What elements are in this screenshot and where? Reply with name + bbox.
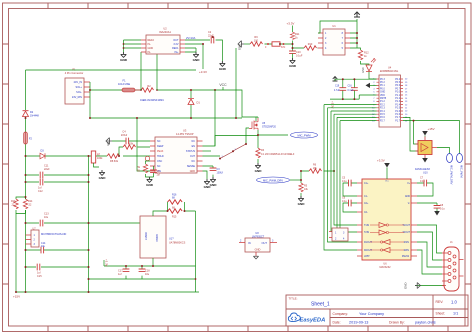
capacitor C7 xyxy=(417,177,433,197)
svg-text:P2.2: P2.2 xyxy=(380,104,385,106)
wire left bypass down xyxy=(15,214,17,293)
wire U6 R1IN to J1 xyxy=(417,242,442,267)
resistor R11 xyxy=(290,32,300,51)
wire 24V bus xyxy=(90,90,256,121)
net port MIC_PWM vertical xyxy=(457,154,464,178)
wire bus line4 xyxy=(334,114,377,225)
capacitor C3 xyxy=(210,168,224,174)
svg-text:D1: D1 xyxy=(197,101,201,105)
driver IC U3 xyxy=(150,129,203,174)
svg-text:NC: NC xyxy=(192,140,196,143)
wire rung 182 C12 xyxy=(26,181,89,183)
wire caps bottom rail to VDD xyxy=(330,95,377,99)
regulator U8 xyxy=(239,232,277,259)
svg-text:67Ω: 67Ω xyxy=(281,47,286,49)
svg-text:R1IN: R1IN xyxy=(404,242,410,244)
svg-text:GND: GND xyxy=(190,170,196,173)
svg-text:U1: U1 xyxy=(332,24,336,28)
wire U2 3.3V pin down xyxy=(185,44,203,69)
capacitor C16 xyxy=(348,79,358,99)
wire U3 status stub xyxy=(203,150,212,152)
svg-text:Date:: Date: xyxy=(333,321,341,325)
frame ticks right xyxy=(465,44,471,284)
frame ticks bottom xyxy=(48,326,448,332)
svg-text:IN: IN xyxy=(248,241,251,245)
svg-text:1uf: 1uf xyxy=(118,273,122,276)
wire EN down leg xyxy=(215,136,258,146)
svg-text:P2.5: P2.5 xyxy=(380,114,385,116)
wire U1 pin1 loop xyxy=(318,21,357,33)
header P2 xyxy=(329,228,348,241)
svg-text:C1+: C1+ xyxy=(364,183,369,185)
svg-text:C1-: C1- xyxy=(364,196,368,198)
svg-text:10u: 10u xyxy=(41,245,46,248)
capacitor C15 xyxy=(37,264,42,278)
svg-text:TITLE:: TITLE: xyxy=(289,297,298,301)
svg-text:EFM8BB21F16G: EFM8BB21F16G xyxy=(380,70,398,73)
svg-text:EasyEDA: EasyEDA xyxy=(300,318,326,324)
svg-text:+3.3V: +3.3V xyxy=(287,22,295,26)
svg-text:REF2: REF2 xyxy=(148,39,155,42)
svg-text:GND: GND xyxy=(404,283,408,289)
svg-text:VDD: VDD xyxy=(380,95,385,97)
svg-text:MIC_PWM_DRV: MIC_PWM_DRV xyxy=(450,165,454,185)
svg-text:P0.1: P0.1 xyxy=(380,85,385,87)
wire fan out xyxy=(437,148,450,154)
svg-text:MAX3232: MAX3232 xyxy=(380,266,392,269)
wire bus line2 xyxy=(328,108,377,242)
junction dots left xyxy=(15,89,216,293)
connector P1 xyxy=(65,68,90,105)
ground arrow left of U4 xyxy=(366,83,377,88)
svg-text:Sheet:: Sheet: xyxy=(436,312,446,316)
resistor R12 xyxy=(358,50,369,65)
resistor pair R16 R15 xyxy=(153,194,196,219)
svg-text:RSTB: RSTB xyxy=(380,98,387,100)
svg-text:MIC_PWM: MIC_PWM xyxy=(460,165,464,178)
svg-text:+15V: +15V xyxy=(428,127,435,131)
svg-text:+15V: +15V xyxy=(13,295,20,299)
svg-text:RS232: RS232 xyxy=(402,256,410,258)
svg-text:T1OUT: T1OUT xyxy=(402,225,410,227)
svg-text:C2+: C2+ xyxy=(364,203,369,205)
svg-text:P0.7: P0.7 xyxy=(395,88,400,90)
LED D4 xyxy=(362,59,376,74)
ground below C2 xyxy=(219,61,227,71)
net flag +3.3V at R11 xyxy=(287,22,295,33)
svg-text:REV:: REV: xyxy=(436,300,444,304)
capacitor C11 xyxy=(40,165,50,179)
svg-text:U3: U3 xyxy=(183,129,187,133)
svg-text:2V=10A: 2V=10A xyxy=(186,36,196,40)
resistor R1 xyxy=(137,161,154,177)
wire P1 joins xyxy=(89,82,91,118)
svg-text:10u: 10u xyxy=(44,216,49,219)
ground U3 gnd xyxy=(204,179,212,189)
svg-text:P2.4: P2.4 xyxy=(380,111,385,113)
wire U3 gnd pin xyxy=(203,171,208,179)
svg-text:OUT: OUT xyxy=(190,155,196,158)
ground below R3 xyxy=(255,163,263,173)
svg-text:100k: 100k xyxy=(97,157,103,160)
junction dots U2 left xyxy=(123,43,125,49)
ground U2 right xyxy=(193,52,201,62)
svg-text:C2-: C2- xyxy=(364,212,368,214)
svg-text:P1.7: P1.7 xyxy=(395,117,400,119)
svg-text:24V_IN: 24V_IN xyxy=(74,81,83,84)
svg-text:01ERJ-M1WSF10MU: 01ERJ-M1WSF10MU xyxy=(140,99,164,102)
connector J1 DB9 xyxy=(442,241,464,291)
wire U6 T2OUT to J1 xyxy=(417,232,442,260)
ground at J1 rotated xyxy=(404,283,421,290)
wire U2 ref1/in+ gnd xyxy=(185,48,196,52)
svg-text:Company:: Company: xyxy=(333,312,349,316)
svg-text:1N4448: 1N4448 xyxy=(30,115,39,118)
svg-text:0.1u: 0.1u xyxy=(420,180,425,183)
svg-text:215uf: 215uf xyxy=(121,134,128,137)
svg-text:U10: U10 xyxy=(423,172,428,175)
svg-text:0.1uF: 0.1uF xyxy=(296,54,303,57)
svg-text:KEEP: KEEP xyxy=(157,145,164,148)
diode D3 xyxy=(40,150,45,159)
svg-text:10u: 10u xyxy=(145,273,150,276)
frame ticks top xyxy=(48,3,448,9)
svg-text:R15: R15 xyxy=(172,216,177,219)
IC U1 xyxy=(318,24,350,55)
svg-text:P2.7: P2.7 xyxy=(380,120,385,122)
net flag +3.3V vertical xyxy=(104,259,109,267)
EasyEDA logo xyxy=(288,313,325,324)
resistor R8 xyxy=(107,154,120,163)
svg-text:P2.3: P2.3 xyxy=(380,108,385,110)
wire U2 out xyxy=(185,40,222,61)
wire U3 OUT to gate xyxy=(203,128,250,156)
wire rung 175 C11 xyxy=(26,174,89,176)
svg-text:GND: GND xyxy=(405,196,410,198)
capacitor C10 xyxy=(289,51,303,58)
resistor pair R13 R14 loop xyxy=(11,197,33,214)
wire U3 EN up to bus xyxy=(203,90,216,146)
wire U6 R2IN to J1 xyxy=(417,250,442,274)
wire J1 gnd xyxy=(415,285,444,287)
fuse F1 xyxy=(118,79,141,92)
svg-text:+3.3V: +3.3V xyxy=(377,159,385,163)
svg-text:MIC_PWM: MIC_PWM xyxy=(298,133,312,137)
diode D1 xyxy=(188,90,200,118)
osc cap circle xyxy=(145,156,149,160)
svg-text:100Uf: 100Uf xyxy=(217,171,224,174)
svg-text:LM7905CT: LM7905CT xyxy=(252,235,265,238)
net flag VCC xyxy=(219,83,227,90)
capacitor C19 xyxy=(334,79,346,99)
svg-text:P1.2: P1.2 xyxy=(395,98,400,100)
wire rung 223 C13 to U9 xyxy=(26,222,141,224)
svg-text:SOL+: SOL+ xyxy=(76,86,83,89)
ground arrow below U10 xyxy=(422,158,428,163)
capacitor C6 xyxy=(342,197,357,213)
svg-text:Your Company: Your Company xyxy=(359,312,384,316)
svg-text:P1.1: P1.1 xyxy=(395,95,400,97)
diagonal jumper wires xyxy=(219,143,247,160)
svg-text:100: 100 xyxy=(254,39,259,42)
wire U3 VIN up xyxy=(137,118,150,171)
svg-text:0.1uF: 0.1uF xyxy=(348,90,354,92)
svg-text:EN: EN xyxy=(192,145,196,148)
svg-text:NC: NC xyxy=(192,160,196,163)
svg-text:P1: P1 xyxy=(72,68,76,72)
ground sideways at R9 xyxy=(238,41,245,51)
capacitor C17 xyxy=(118,266,129,279)
mcu U4 EFM8BB21F16G xyxy=(372,67,408,128)
svg-text:GND: GND xyxy=(255,248,261,252)
wire feedback vertical xyxy=(195,211,197,292)
junction dots right xyxy=(342,78,415,121)
svg-text:OSC: OSC xyxy=(157,160,162,163)
svg-text:NC: NC xyxy=(157,140,161,143)
gate driver U10 FAN3111ESX xyxy=(415,137,437,175)
svg-text:+3.3V: +3.3V xyxy=(105,259,109,267)
svg-text:STATUS: STATUS xyxy=(186,150,195,153)
svg-text:HOLD: HOLD xyxy=(157,155,164,158)
svg-text:78M05: 78M05 xyxy=(155,234,159,242)
svg-text:P0.5: P0.5 xyxy=(395,82,400,84)
svg-text:U1?: U1? xyxy=(169,238,174,241)
svg-text:REF1: REF1 xyxy=(172,47,179,50)
wire bottom +15V rail xyxy=(16,291,199,293)
resistor R5 xyxy=(299,180,309,196)
svg-text:P0.2: P0.2 xyxy=(380,82,385,84)
svg-text:U2: U2 xyxy=(163,27,167,31)
wire mid vertical x88.5 xyxy=(88,156,90,292)
svg-text:C12: C12 xyxy=(38,190,43,193)
wire U4 to fan in1 xyxy=(414,121,419,144)
capacitor C4 xyxy=(112,131,150,145)
ground below C10 xyxy=(289,58,297,68)
svg-text:GND: GND xyxy=(106,140,110,146)
svg-text:0.1u: 0.1u xyxy=(440,208,445,211)
svg-text:P1.2: P1.2 xyxy=(380,101,385,103)
net flag +15V xyxy=(422,127,434,137)
power arrow top of caps xyxy=(333,77,338,82)
regulator U7 xyxy=(26,227,67,247)
svg-text:NC: NC xyxy=(157,165,161,168)
transceiver U6 MAX3232 xyxy=(357,179,417,269)
svg-text:Sheet_1: Sheet_1 xyxy=(311,301,330,307)
svg-text:P2.6: P2.6 xyxy=(380,117,385,119)
svg-text:LM340: LM340 xyxy=(144,232,148,240)
wire rung 156 xyxy=(26,155,151,157)
resistor R10 xyxy=(293,43,319,50)
capacitor C12 xyxy=(38,179,43,193)
svg-text:GND: GND xyxy=(148,47,154,50)
wire U2 left to gnd xyxy=(124,40,142,52)
svg-text:PEAK: PEAK xyxy=(157,150,164,153)
capacitor C13 xyxy=(40,213,49,227)
net label MIC_PWM_DRV xyxy=(257,177,302,183)
svg-text:R1OUT: R1OUT xyxy=(364,242,372,244)
svg-text:R8 63k: R8 63k xyxy=(110,160,119,163)
svg-text:UA78M00KCS: UA78M00KCS xyxy=(169,242,186,245)
wire U2 sense taps xyxy=(141,52,157,90)
regulator U9 xyxy=(140,216,186,258)
svg-text:GND: GND xyxy=(362,67,365,73)
svg-text:T2IN: T2IN xyxy=(364,232,369,234)
svg-text:22uF: 22uF xyxy=(44,168,50,171)
svg-text:C15: C15 xyxy=(37,275,42,278)
capacitor C2 xyxy=(208,31,214,43)
net label MIC_PWM xyxy=(291,132,318,138)
svg-text:C19: C19 xyxy=(335,86,340,88)
diode D2 xyxy=(23,111,40,118)
wire rung 267 C15 xyxy=(26,266,89,268)
svg-text:1uf: 1uf xyxy=(157,173,161,176)
shunt resistor 0.67 xyxy=(265,42,293,49)
svg-text:P0.0: P0.0 xyxy=(380,88,385,90)
mosfet U5 xyxy=(249,118,277,130)
svg-text:0.1u: 0.1u xyxy=(342,200,347,203)
wire U3 sense to C3 xyxy=(203,166,214,177)
wire bus line5 xyxy=(337,117,377,237)
wire U4 right out1 xyxy=(403,121,460,154)
svg-text:R2IN: R2IN xyxy=(404,250,410,252)
svg-text:INA240A1: INA240A1 xyxy=(159,30,171,34)
svg-text:IN-: IN- xyxy=(148,43,152,46)
ground below R1 C1 xyxy=(146,177,154,187)
svg-text:3.3V: 3.3V xyxy=(173,43,178,46)
svg-text:MC78M15CTG0S-ND: MC78M15CTG0S-ND xyxy=(41,232,66,236)
wire mosfet drain top xyxy=(256,117,258,118)
fuse F2 xyxy=(24,132,33,144)
power arrow VCC top xyxy=(354,12,360,21)
wire bus line3 xyxy=(331,111,377,232)
ground below R5 xyxy=(298,196,306,206)
capacitor C5 xyxy=(342,177,357,197)
svg-text:10A FUSE: 10A FUSE xyxy=(118,82,130,86)
svg-text:Drawn By:: Drawn By: xyxy=(389,321,405,325)
svg-text:0.1u: 0.1u xyxy=(342,180,347,183)
ground below R7 xyxy=(94,163,107,180)
junction dots top xyxy=(202,32,358,119)
resistor R6 xyxy=(301,164,334,181)
svg-text:payton.civils: payton.civils xyxy=(415,321,436,325)
svg-text:P1.0: P1.0 xyxy=(395,92,400,94)
svg-text:IN-: IN- xyxy=(148,51,152,54)
wire U4 to fan in2 xyxy=(403,117,418,151)
svg-text:STD25NF20: STD25NF20 xyxy=(262,126,277,129)
svg-text:OUT: OUT xyxy=(173,39,179,42)
svg-text:P1.5: P1.5 xyxy=(395,108,400,110)
wire 3.3V rail xyxy=(89,266,196,279)
resistor R8b xyxy=(119,143,150,157)
capacitor C18 xyxy=(139,266,151,279)
resistor R7 xyxy=(91,151,103,163)
wire rung 250 C14 xyxy=(26,249,89,251)
svg-text:MIC_PWM_DRV: MIC_PWM_DRV xyxy=(263,178,283,182)
wire gnd drop x236 xyxy=(235,48,237,118)
svg-text:+3.3V: +3.3V xyxy=(199,70,207,74)
svg-text:GND: GND xyxy=(380,92,385,94)
capacitor C8 xyxy=(417,203,445,216)
svg-text:IN+: IN+ xyxy=(175,51,180,54)
svg-text:1.0: 1.0 xyxy=(451,300,457,305)
svg-text:0.1 2W CRM2512-FX-R1WELF: 0.1 2W CRM2512-FX-R1WELF xyxy=(261,153,295,156)
svg-text:LR5T: LR5T xyxy=(364,256,370,258)
wire U6 T1OUT to J1 xyxy=(417,225,442,253)
junction dots center xyxy=(136,117,335,181)
wire bus line6 xyxy=(340,121,377,232)
svg-text:C16: C16 xyxy=(348,86,353,88)
wire left rail to P1 xyxy=(26,70,197,292)
svg-text:2019-09-13: 2019-09-13 xyxy=(349,321,368,325)
wire mosfet source down xyxy=(258,130,288,148)
resistor R9 xyxy=(244,36,263,46)
svg-text:P1.7: P1.7 xyxy=(395,120,400,122)
resistor R2 shunt xyxy=(140,85,164,102)
wire U9 out down xyxy=(152,258,154,266)
svg-text:T1IN: T1IN xyxy=(364,225,369,227)
svg-text:SOL-: SOL- xyxy=(76,91,82,94)
ground below C3 xyxy=(210,177,218,187)
svg-text:V-: V- xyxy=(408,203,410,205)
svg-text:P0.6: P0.6 xyxy=(395,85,400,87)
capacitor C1 xyxy=(150,166,160,177)
svg-text:24V_RIN: 24V_RIN xyxy=(72,96,82,99)
svg-text:R10: R10 xyxy=(308,43,313,46)
ground left of C4 xyxy=(106,138,112,145)
ground U2 left xyxy=(120,52,128,62)
svg-text:P1.6: P1.6 xyxy=(395,111,400,113)
svg-text:4 Pin Connector: 4 Pin Connector xyxy=(65,71,84,75)
capacitor C14 xyxy=(41,242,46,254)
title block frame xyxy=(286,295,468,326)
svg-text:P1.6: P1.6 xyxy=(395,114,400,116)
svg-text:4.7uF: 4.7uF xyxy=(334,90,340,92)
svg-text:OUT: OUT xyxy=(262,241,268,245)
svg-text:VCC: VCC xyxy=(219,83,227,87)
svg-text:P1.4: P1.4 xyxy=(395,104,400,106)
svg-text:1/1: 1/1 xyxy=(453,312,458,316)
svg-text:P0.4: P0.4 xyxy=(395,79,400,81)
svg-text:P1.3: P1.3 xyxy=(395,101,400,103)
wire bus line1 xyxy=(324,105,377,250)
net flag +3.3V above U6 xyxy=(377,159,390,180)
frame ticks left xyxy=(3,44,9,284)
wire U1 right pins to rail xyxy=(350,21,361,50)
wire LED to U4 xyxy=(369,72,377,79)
svg-text:R2OUT: R2OUT xyxy=(364,250,372,252)
svg-text:P0.3: P0.3 xyxy=(380,79,385,81)
op-amp U2 INA240A1 xyxy=(141,27,185,55)
net port MIC_PWM_DRV vertical xyxy=(447,154,454,185)
svg-text:GND: GND xyxy=(238,44,242,50)
wire solenoid return y118 xyxy=(90,117,242,119)
wire caps top rail xyxy=(335,79,377,81)
svg-text:14-PIN TSSOP: 14-PIN TSSOP xyxy=(176,132,194,136)
svg-text:SENSE: SENSE xyxy=(187,165,196,168)
resistor R3 xyxy=(256,148,295,163)
